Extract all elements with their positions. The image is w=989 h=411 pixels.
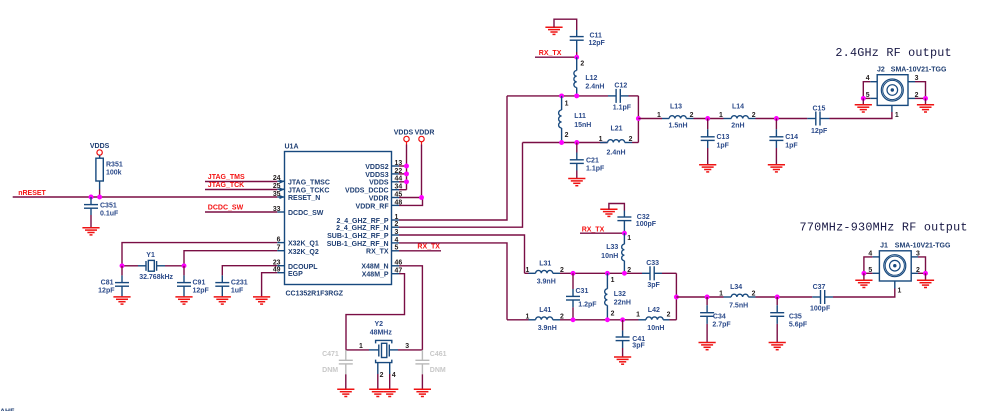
svg-text:3pF: 3pF [647, 282, 660, 289]
svg-text:L31: L31 [539, 261, 551, 268]
capacitor C31 1.2pF [566, 273, 597, 320]
connector J1 SMA-10V21-TGG [879, 242, 951, 281]
svg-text:L13: L13 [670, 103, 682, 110]
svg-text:J1: J1 [880, 242, 888, 249]
svg-text:L11: L11 [574, 113, 586, 120]
svg-text:RX_TX: RX_TX [582, 226, 605, 233]
capacitor C35 5.6pF [770, 297, 808, 343]
ground C34 [699, 343, 716, 350]
inductor L12 2.4nH [574, 57, 605, 96]
svg-text:C81: C81 [101, 280, 114, 287]
svg-text:RX_TX: RX_TX [366, 249, 389, 256]
net JTAG_TCK wire [205, 182, 277, 189]
ground C461 [414, 389, 431, 396]
junction dots bottom node [559, 140, 579, 145]
svg-text:C34: C34 [713, 314, 726, 321]
power VDDR (IC rail) [399, 129, 434, 205]
svg-text:3: 3 [395, 229, 399, 236]
svg-text:3: 3 [405, 343, 409, 350]
svg-text:Y2: Y2 [375, 321, 384, 328]
svg-text:33: 33 [273, 206, 281, 213]
svg-text:DCDC_SW: DCDC_SW [208, 205, 244, 212]
capacitor C11 12pF [570, 30, 606, 52]
junction dot VDDR [419, 195, 424, 200]
junction dot C34 [705, 295, 710, 300]
svg-text:C231: C231 [231, 280, 248, 287]
J1 pin2 wire [911, 267, 925, 274]
svg-text:X32K_Q1: X32K_Q1 [288, 241, 319, 248]
svg-text:2.4GHz RF output: 2.4GHz RF output [835, 46, 951, 60]
svg-text:100pF: 100pF [636, 221, 657, 228]
svg-text:4: 4 [868, 250, 872, 257]
svg-text:100pF: 100pF [810, 306, 831, 313]
capacitor C12 1.1pF [608, 83, 638, 112]
svg-text:R351: R351 [106, 162, 123, 169]
svg-text:L42: L42 [648, 307, 660, 314]
wire C12-L21 vertical [637, 96, 639, 143]
J1 pin4 wire [864, 250, 880, 273]
svg-text:VDDS2: VDDS2 [365, 164, 388, 171]
svg-text:U1A: U1A [285, 144, 299, 151]
svg-text:X48M_P: X48M_P [362, 272, 389, 279]
svg-text:RX_TX: RX_TX [417, 244, 440, 251]
inductor L32 22nH [605, 273, 631, 320]
wire L13-L14 [694, 118, 732, 120]
svg-text:2_4_GHZ_RF_N: 2_4_GHZ_RF_N [336, 225, 389, 232]
svg-text:nRESET: nRESET [18, 190, 46, 197]
wire X48M_P pin47 [346, 274, 405, 350]
node top wire 2.4G [507, 95, 608, 97]
capacitor C351 0.1uF [84, 197, 119, 228]
junction dots bottom node sub1 [571, 317, 626, 322]
capacitor C231 1uF [215, 280, 247, 297]
wire EGP pin49 [262, 273, 278, 297]
svg-text:12pF: 12pF [193, 287, 210, 294]
svg-text:1: 1 [719, 112, 723, 119]
svg-text:1pF: 1pF [785, 143, 798, 150]
ground C41 [614, 357, 631, 364]
J1 pin3 wire [911, 250, 925, 273]
svg-text:5: 5 [868, 267, 872, 274]
svg-text:DCDC_SW: DCDC_SW [288, 210, 324, 217]
crystal Y1 32.768kHz [122, 252, 184, 281]
svg-text:C11: C11 [590, 32, 603, 39]
svg-text:3: 3 [915, 75, 919, 82]
ground C81 [113, 297, 130, 304]
wire L34-C37 [756, 296, 813, 298]
svg-text:JTAG_TCKC: JTAG_TCKC [288, 187, 329, 194]
inductor L34 7.5nH [719, 284, 755, 309]
svg-text:0.1uF: 0.1uF [100, 210, 119, 217]
svg-text:VDDS: VDDS [369, 180, 389, 187]
svg-text:C15: C15 [813, 106, 826, 113]
node output wire sub1 [676, 296, 731, 298]
capacitor C32 100pF [617, 211, 656, 234]
svg-text:2: 2 [752, 291, 756, 298]
IC right pin numbers [395, 160, 403, 275]
inductor L11 15nH [559, 96, 592, 143]
svg-text:1: 1 [719, 291, 723, 298]
wire X32K_Q2 pin7 [184, 251, 277, 266]
junction dot output branch sub1 [674, 295, 679, 300]
svg-text:12pF: 12pF [589, 40, 606, 47]
svg-text:1: 1 [359, 343, 363, 350]
wire C33/L42 junction vertical [675, 273, 677, 320]
title 2.4GHz RF output [835, 46, 951, 60]
svg-text:VDDS3: VDDS3 [365, 172, 388, 179]
svg-text:1uF: 1uF [231, 287, 244, 294]
svg-text:10nH: 10nH [647, 325, 664, 332]
node top wire sub1 [525, 272, 643, 274]
ground C231 [214, 297, 231, 304]
wire SUB-1_GHZ_RF_N pin4 [399, 243, 507, 320]
wire 2_4_GHZ_RF_N pin2 [399, 143, 523, 228]
junction dot 2.4G output branch [636, 116, 641, 121]
ground C91 [175, 297, 192, 304]
svg-text:C12: C12 [614, 83, 627, 90]
svg-text:1: 1 [565, 101, 569, 108]
svg-text:49: 49 [273, 267, 281, 274]
junction dots VDDS rail [404, 164, 409, 185]
svg-text:2: 2 [395, 221, 399, 228]
svg-text:1pF: 1pF [717, 143, 730, 150]
svg-text:1: 1 [898, 288, 902, 295]
ground C35 [769, 343, 786, 350]
IC left pin numbers [273, 175, 281, 274]
svg-text:RESET_N: RESET_N [288, 195, 320, 202]
inductor L42 10nH [636, 307, 676, 332]
svg-text:L34: L34 [730, 284, 742, 291]
J2 pin5 wire [863, 92, 877, 99]
IC input arrows pins 24 25 35 [280, 179, 285, 199]
svg-text:770MHz-930MHz RF output: 770MHz-930MHz RF output [800, 220, 968, 234]
svg-text:L33: L33 [606, 244, 618, 251]
capacitor C37 100pF [810, 284, 833, 313]
J2 pin4 wire [863, 75, 877, 98]
svg-text:7.5nH: 7.5nH [729, 302, 748, 309]
svg-text:100k: 100k [106, 170, 122, 177]
ground Y2 pin2 [369, 389, 386, 396]
J2 ground right [917, 96, 934, 112]
svg-text:DNM: DNM [430, 367, 446, 374]
ground C471 [337, 389, 354, 396]
svg-text:10nH: 10nH [601, 253, 618, 260]
svg-text:2: 2 [915, 92, 919, 99]
capacitor C81 12pF [98, 266, 129, 297]
svg-text:CC1352R1F3RGZ: CC1352R1F3RGZ [286, 290, 344, 297]
svg-text:1: 1 [525, 267, 529, 274]
svg-text:VDDR_RF: VDDR_RF [356, 203, 390, 210]
IC left pin stubs [277, 181, 284, 273]
svg-text:2_4_GHZ_RF_P: 2_4_GHZ_RF_P [336, 218, 388, 225]
svg-text:VDDS: VDDS [394, 129, 414, 136]
J1 pin5 wire [864, 267, 880, 274]
svg-text:C37: C37 [813, 284, 826, 291]
svg-text:1: 1 [657, 112, 661, 119]
junction dot C13 [705, 116, 710, 121]
svg-text:7: 7 [277, 245, 281, 252]
svg-text:EGP: EGP [288, 271, 303, 278]
capacitor C13 1pF [701, 119, 730, 165]
svg-text:2: 2 [560, 313, 564, 320]
junction dot RX_TX top [574, 52, 579, 60]
inductor L33 10nH [601, 233, 631, 274]
svg-text:JTAG_TMS: JTAG_TMS [208, 174, 245, 181]
capacitor C15 12pF [807, 106, 829, 135]
svg-text:C14: C14 [785, 134, 798, 141]
svg-text:DNM: DNM [322, 367, 338, 374]
svg-text:23: 23 [273, 260, 281, 267]
svg-text:JTAG_TCK: JTAG_TCK [208, 182, 244, 189]
svg-text:C91: C91 [193, 280, 206, 287]
svg-text:4: 4 [866, 75, 870, 82]
svg-text:2: 2 [565, 132, 569, 139]
power VDDS (R351 pull-up) [90, 143, 110, 158]
capacitor C91 12pF [177, 266, 210, 297]
svg-text:SUB-1_GHZ_RF_P: SUB-1_GHZ_RF_P [327, 233, 389, 240]
svg-text:C471: C471 [322, 351, 339, 358]
ground C11 [545, 19, 576, 34]
capacitor C33 3pF [642, 260, 676, 289]
svg-text:1: 1 [525, 313, 529, 320]
svg-text:VDDS: VDDS [90, 143, 110, 150]
wire X48M_N pin46 [399, 266, 422, 350]
svg-text:L14: L14 [732, 103, 744, 110]
svg-text:X48M_N: X48M_N [361, 264, 388, 271]
ground C32 [600, 204, 624, 217]
resistor R351 100k [96, 158, 123, 197]
capacitor C21 1.1pF [570, 143, 605, 179]
svg-text:1.1pF: 1.1pF [613, 105, 632, 112]
svg-text:1: 1 [611, 277, 615, 284]
svg-text:L41: L41 [539, 307, 551, 314]
junction dot C35 [775, 295, 780, 300]
inductor L21 2.4nH [599, 125, 639, 156]
svg-text:2.7pF: 2.7pF [712, 321, 731, 328]
svg-text:C35: C35 [789, 314, 802, 321]
inductor L31 3.9nH [525, 261, 564, 286]
svg-text:SMA-10V21-TGG: SMA-10V21-TGG [891, 67, 947, 74]
svg-text:5: 5 [395, 245, 399, 252]
capacitor C471 DNM [322, 350, 353, 389]
svg-text:5.6pF: 5.6pF [789, 321, 808, 328]
IC right pin names [327, 164, 390, 279]
svg-text:SUB-1_GHZ_RF_N: SUB-1_GHZ_RF_N [327, 241, 389, 248]
connector J2 SMA-10V21-TGG [877, 67, 947, 106]
wire SUB-1_GHZ_RF_P pin3 [399, 235, 525, 273]
ground C351 [82, 228, 99, 235]
page-edge text artifact bottom-left [0, 409, 15, 411]
svg-text:12pF: 12pF [811, 128, 828, 135]
svg-text:3.9nH: 3.9nH [538, 325, 557, 332]
svg-text:1: 1 [395, 214, 399, 221]
svg-text:J2: J2 [877, 67, 885, 74]
svg-text:48MHz: 48MHz [370, 329, 393, 336]
J2 pin2 wire [908, 92, 926, 99]
wire DCOUPL pin23 [222, 266, 277, 283]
junction dot C14 [774, 116, 779, 121]
svg-text:C21: C21 [586, 158, 599, 165]
svg-text:SMA-10V21-TGG: SMA-10V21-TGG [895, 242, 951, 249]
svg-text:4: 4 [395, 237, 399, 244]
inductor L14 2nH [719, 103, 756, 129]
svg-text:1.2pF: 1.2pF [578, 302, 597, 309]
svg-text:2: 2 [916, 267, 920, 274]
svg-text:1: 1 [636, 311, 640, 318]
svg-text:1: 1 [627, 235, 631, 242]
svg-text:2: 2 [560, 267, 564, 274]
svg-text:1.1pF: 1.1pF [586, 165, 605, 172]
title 770MHz-930MHz RF output [800, 220, 968, 234]
capacitor C41 3pF [616, 320, 646, 357]
svg-text:2: 2 [752, 112, 756, 119]
svg-text:3: 3 [916, 250, 920, 257]
crystal Y2 48MHz [346, 321, 422, 389]
svg-text:2: 2 [611, 310, 615, 317]
wire to L13 [638, 118, 669, 120]
svg-text:1: 1 [895, 112, 899, 119]
svg-text:3.9nH: 3.9nH [537, 278, 556, 285]
svg-text:JTAG_TMSC: JTAG_TMSC [288, 179, 330, 186]
svg-text:2: 2 [629, 136, 633, 143]
IC right pin stubs [392, 166, 400, 274]
junction dots top node [559, 93, 579, 98]
svg-text:Y1: Y1 [146, 252, 155, 259]
svg-text:6: 6 [277, 237, 281, 244]
svg-text:VDDR: VDDR [369, 195, 389, 202]
wire 2_4_GHZ_RF_P pin1 [399, 96, 507, 220]
wire L14-C15 [756, 118, 808, 120]
op IC U1A CC1352R1F3RGZ box [285, 144, 392, 298]
svg-text:C13: C13 [717, 134, 730, 141]
wire C15 to J2 pin1 [830, 105, 899, 118]
net RX_TX pin5 [399, 244, 441, 251]
net DCDC_SW wire [205, 205, 277, 212]
svg-text:L21: L21 [611, 125, 623, 132]
svg-text:VDDS_DCDC: VDDS_DCDC [345, 188, 389, 195]
svg-text:12pF: 12pF [98, 287, 115, 294]
svg-text:L32: L32 [614, 291, 626, 298]
ground C14 [768, 165, 785, 172]
svg-text:C351: C351 [100, 202, 117, 209]
capacitor C461 DNM [415, 350, 446, 389]
net RX_TX sub1 [580, 226, 624, 233]
ground EGP [253, 297, 270, 304]
IC left pin names [288, 179, 330, 277]
svg-text:DCOUPL: DCOUPL [288, 264, 318, 271]
ground C13 [699, 165, 716, 172]
power VDDS (IC rail) [394, 129, 414, 189]
svg-text:VDDR: VDDR [415, 129, 435, 136]
junction node nRESET/C351 [89, 195, 103, 200]
svg-text:RX_TX: RX_TX [539, 50, 562, 57]
node bottom wire 2.4G [523, 142, 608, 144]
svg-text:C33: C33 [646, 260, 659, 267]
capacitor C34 2.7pF [700, 297, 731, 343]
J2 ground left [855, 96, 872, 112]
svg-text:4: 4 [392, 372, 396, 379]
svg-text:C31: C31 [576, 288, 589, 295]
svg-text:24: 24 [273, 175, 281, 182]
wire X32K_Q1 pin6 [122, 243, 277, 266]
net JTAG_TMS wire [205, 174, 277, 181]
J1 ground left [855, 271, 872, 288]
svg-text:32.768kHz: 32.768kHz [139, 274, 173, 281]
svg-text:15nH: 15nH [574, 122, 591, 129]
svg-text:L12: L12 [585, 75, 597, 82]
svg-text:C461: C461 [430, 351, 447, 358]
svg-text:1.5nH: 1.5nH [669, 122, 688, 129]
inductor L41 3.9nH [525, 307, 564, 332]
junction dots Y1 [120, 263, 187, 268]
inductor L13 1.5nH [657, 103, 694, 129]
svg-text:35: 35 [273, 191, 281, 198]
J1 ground right [917, 271, 934, 288]
svg-text:2.4nH: 2.4nH [585, 84, 604, 91]
svg-text:5: 5 [866, 92, 870, 99]
net nRESET wire [13, 190, 278, 197]
svg-text:2: 2 [690, 112, 694, 119]
net RX_TX top [535, 50, 577, 57]
node bottom wire sub1 [507, 319, 639, 321]
capacitor C14 1pF [769, 119, 798, 165]
J2 pin3 wire [908, 75, 926, 98]
svg-text:25: 25 [273, 183, 281, 190]
junction dots top node sub1 [571, 271, 627, 276]
ground C21 [568, 179, 585, 186]
ground Y2 pin4 [381, 389, 398, 396]
svg-text:2: 2 [380, 372, 384, 379]
svg-text:C32: C32 [637, 214, 650, 221]
svg-text:22nH: 22nH [614, 299, 631, 306]
svg-text:3pF: 3pF [632, 342, 645, 349]
svg-text:2nH: 2nH [731, 122, 744, 129]
svg-text:2.4nH: 2.4nH [607, 149, 626, 156]
wire C37 to J1 pin1 [833, 281, 902, 297]
junction dot RX_TX sub1 [622, 231, 631, 242]
svg-text:2: 2 [667, 311, 671, 318]
svg-text:2: 2 [580, 61, 584, 68]
svg-text:1: 1 [599, 136, 603, 143]
svg-text:X32K_Q2: X32K_Q2 [288, 249, 319, 256]
